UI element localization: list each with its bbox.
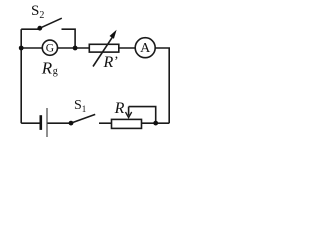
svg-text:A: A [140,41,151,56]
svg-text:G: G [46,42,54,54]
svg-text:’: ’ [114,55,119,70]
svg-text:g: g [53,66,58,77]
svg-text:R: R [103,54,114,71]
svg-text:R: R [114,100,125,117]
svg-text:R: R [41,59,53,78]
